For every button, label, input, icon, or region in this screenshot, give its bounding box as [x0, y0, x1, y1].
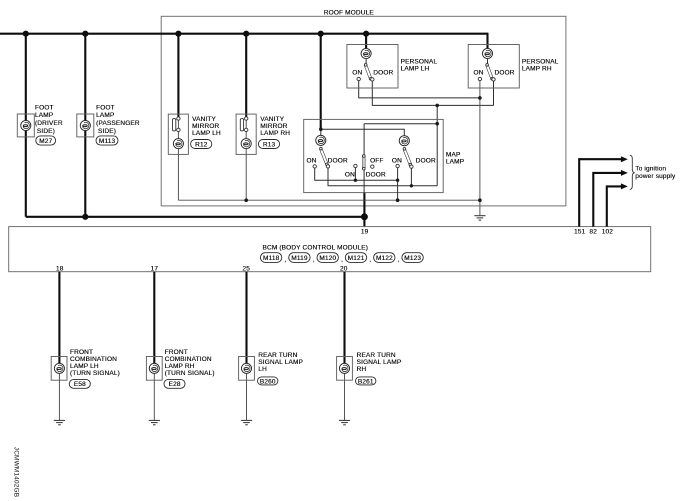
wire: personal RH ON down to roof ground line: [479, 80, 481, 200]
wire: front combination lamp LH to ground: [58, 374, 60, 421]
junction on bus at map lamp: [318, 31, 324, 37]
connector M118: [260, 253, 286, 264]
svg-text:SIDE): SIDE): [37, 128, 55, 135]
personal lamp RH: [468, 45, 558, 89]
wire: foot lamp LH feed: [25, 34, 27, 217]
junction on bus at vanity lamp RH: [243, 31, 249, 37]
junction center ON on ground line: [354, 179, 357, 182]
wire: BCM pin 151 to ignition: [579, 159, 621, 226]
svg-text:ON: ON: [306, 158, 316, 165]
connector M119: [289, 253, 315, 264]
wire: map lamp left bulb stub: [320, 129, 322, 146]
map lamp center switch: [345, 155, 386, 179]
svg-text:M122: M122: [376, 255, 393, 262]
connector R12: [191, 140, 212, 149]
wire: BCM pin 20 to rear turn signal lamp RH: [343, 272, 345, 364]
wire: map switch common to DOOR loop: [364, 124, 437, 193]
wire: BCM pin 18 to front combination lamp LH: [58, 272, 60, 364]
arrowhead pin 82: [621, 170, 628, 176]
front combination lamp RH (turn signal) E28: [146, 349, 214, 380]
svg-text:(TURN SIGNAL): (TURN SIGNAL): [165, 370, 215, 377]
wire: personal lamp RH feed drop: [486, 33, 488, 49]
svg-text:LAMP LH: LAMP LH: [70, 363, 99, 370]
rear turn signal lamp RH B261: [337, 352, 402, 380]
svg-text:20: 20: [340, 265, 348, 272]
connector B260: [258, 377, 278, 385]
svg-text:102: 102: [602, 228, 614, 235]
junction map ground exit on roof ground line: [396, 198, 400, 202]
wire: roof ground drop: [479, 200, 481, 215]
wire: front combination lamp RH to ground: [153, 374, 155, 421]
svg-text:ON: ON: [345, 171, 355, 178]
wire: map lamp feed: [320, 34, 322, 130]
svg-text:OFF: OFF: [370, 158, 383, 165]
arrowhead pin 151: [621, 156, 628, 162]
svg-text:VANITY: VANITY: [192, 116, 216, 123]
svg-text:ON: ON: [352, 70, 362, 77]
wire: personal lamps ON line: [359, 80, 480, 98]
svg-text:DOOR: DOOR: [494, 70, 514, 77]
svg-text:17: 17: [151, 265, 159, 272]
svg-text:E58: E58: [74, 381, 86, 388]
connector M27: [36, 136, 56, 145]
svg-text:SIGNAL LAMP: SIGNAL LAMP: [258, 359, 303, 366]
map lamp box: [304, 119, 464, 192]
wire: BCM pin 82 to ignition: [593, 173, 621, 227]
svg-text:18: 18: [56, 265, 64, 272]
svg-text:DOOR: DOOR: [328, 158, 348, 165]
wire: vanity mirror lamp LH feed: [177, 34, 179, 117]
svg-text:B260: B260: [260, 378, 276, 385]
svg-text:MIRROR: MIRROR: [260, 123, 287, 130]
wire: map center ON contact drop: [354, 167, 356, 180]
svg-text:LAMP RH: LAMP RH: [522, 66, 552, 73]
wire: DOOR signal drop to map lamp: [436, 105, 438, 185]
svg-text:LAMP RH: LAMP RH: [260, 130, 290, 137]
svg-text:,: ,: [341, 257, 343, 264]
svg-text:E28: E28: [168, 381, 180, 388]
vanity mirror lamp RH R13: [236, 114, 290, 154]
svg-text:DOOR: DOOR: [366, 171, 386, 178]
wire: run to BCM pin 19: [26, 216, 365, 218]
svg-text:FRONT: FRONT: [70, 349, 93, 356]
map lamp right bulb: [392, 136, 436, 169]
ground (rear turn signal lamp RH): [339, 420, 350, 424]
svg-text:LH: LH: [258, 366, 267, 373]
wire: map DOOR line: [328, 168, 437, 186]
svg-text:LAMP: LAMP: [35, 112, 53, 119]
junction right ON on ground line: [396, 179, 399, 182]
svg-text:RH: RH: [357, 366, 367, 373]
svg-text:19: 19: [361, 228, 369, 235]
map lamp left bulb: [306, 135, 347, 168]
connector B261: [356, 377, 376, 385]
foot lamp (driver side) M27: [17, 104, 63, 136]
svg-text:M118: M118: [263, 255, 280, 262]
svg-text:B261: B261: [358, 378, 374, 385]
junction ground node: [478, 198, 482, 202]
personal lamp LH: [347, 45, 437, 89]
svg-text:VANITY: VANITY: [260, 116, 284, 123]
wire: rear turn signal lamp LH to ground: [246, 374, 248, 421]
svg-text:M119: M119: [291, 255, 308, 262]
wire: pin 19 drop into BCM: [363, 193, 365, 227]
svg-text:LAMP: LAMP: [96, 112, 114, 119]
wire: map ON (ground) line: [315, 168, 398, 181]
vanity mirror lamp LH R12: [168, 114, 221, 154]
svg-text:SIGNAL LAMP: SIGNAL LAMP: [357, 359, 402, 366]
svg-text:JCMWM1402GB: JCMWM1402GB: [12, 447, 19, 497]
wire: vanity LH internal + down to ground line: [177, 119, 179, 201]
svg-text:LAMP: LAMP: [446, 159, 464, 166]
wire: BCM pin 17 to front combination lamp RH: [153, 272, 155, 364]
svg-text:M120: M120: [319, 255, 336, 262]
connector E58: [69, 379, 90, 388]
svg-text:MAP: MAP: [446, 151, 461, 158]
svg-text:REAR TURN: REAR TURN: [258, 352, 297, 359]
junction DOOR loop top: [435, 122, 439, 126]
svg-text:DOOR: DOOR: [373, 70, 393, 77]
svg-text:R12: R12: [195, 141, 208, 148]
wire: rear turn signal lamp RH to ground: [344, 374, 346, 421]
svg-text:power supply: power supply: [635, 173, 676, 180]
svg-text:REAR TURN: REAR TURN: [357, 352, 396, 359]
junction on bus at foot lamp LH: [23, 31, 29, 37]
junction vanity RH on roof ground line: [244, 198, 248, 202]
svg-text:COMBINATION: COMBINATION: [70, 356, 117, 363]
ground (rear turn signal lamp LH): [241, 420, 252, 424]
wire: map right ON contact drop + exit: [397, 167, 399, 200]
junction on bus at personal lamp LH: [363, 31, 369, 37]
svg-text:25: 25: [242, 265, 250, 272]
junction on bus at foot lamp RH: [82, 31, 88, 37]
BCM (body control module) box: [9, 227, 651, 272]
svg-text:LAMP RH: LAMP RH: [165, 363, 195, 370]
svg-text:FOOT: FOOT: [35, 104, 54, 111]
connector M123: [402, 253, 423, 263]
wire: vanity mirror lamp RH feed: [245, 34, 247, 117]
svg-text:PERSONAL: PERSONAL: [522, 59, 559, 66]
svg-text:ON: ON: [392, 158, 402, 165]
svg-text:R13: R13: [263, 141, 276, 148]
ground (front combination lamp LH): [54, 420, 65, 424]
junction personal DOOR lines: [435, 104, 439, 108]
arrowhead pin 102: [621, 183, 628, 189]
junction foot lamp RH to pin19 run: [82, 214, 88, 220]
svg-text:FRONT: FRONT: [165, 349, 188, 356]
junction right DOOR on door line: [410, 184, 413, 187]
svg-text:LAMP LH: LAMP LH: [192, 130, 221, 137]
svg-text:MIRROR: MIRROR: [192, 123, 219, 130]
junction map power: [319, 127, 323, 131]
wire: BCM pin 102 to ignition: [607, 186, 622, 226]
svg-text:FOOT: FOOT: [96, 104, 115, 111]
svg-text:COMBINATION: COMBINATION: [165, 356, 212, 363]
svg-text:SIDE): SIDE): [98, 128, 116, 135]
svg-text:LAMP LH: LAMP LH: [401, 66, 430, 73]
connector M120: [317, 253, 343, 264]
svg-text:M27: M27: [39, 138, 52, 145]
wire: foot lamp RH feed: [84, 34, 86, 217]
wire: map lamp internal power line: [321, 129, 405, 135]
wire: vanity RH internal + down to ground line: [245, 119, 247, 201]
connector M113: [96, 136, 118, 145]
svg-text:(PASSENGER: (PASSENGER: [96, 120, 140, 127]
connector M122: [374, 253, 400, 264]
svg-text:(TURN SIGNAL): (TURN SIGNAL): [70, 370, 120, 377]
svg-text:,: ,: [284, 257, 286, 264]
junction on bus at vanity lamp LH: [175, 31, 181, 37]
connector R13: [258, 140, 279, 149]
roof module box: [161, 16, 566, 206]
brace to ignition: [630, 155, 635, 189]
svg-text:M121: M121: [348, 255, 365, 262]
svg-text:,: ,: [313, 257, 315, 264]
junction pin19 node: [361, 213, 368, 220]
svg-text:,: ,: [369, 257, 371, 264]
ground (roof module): [474, 216, 485, 220]
svg-text:BCM (BODY CONTROL MODULE): BCM (BODY CONTROL MODULE): [262, 244, 368, 251]
wire: roof ground line: [178, 199, 480, 201]
wire: map right DOOR contact drop: [410, 167, 412, 186]
ground (front combination lamp RH): [149, 420, 160, 424]
svg-text:M113: M113: [99, 138, 116, 145]
svg-text:DOOR: DOOR: [416, 158, 436, 165]
svg-text:PERSONAL: PERSONAL: [401, 59, 438, 66]
front combination lamp LH (turn signal) E58: [51, 349, 120, 380]
wire: personal RH DOOR drop: [493, 81, 495, 106]
svg-text:ON: ON: [473, 70, 483, 77]
svg-text:82: 82: [589, 228, 597, 235]
connector M121: [345, 253, 371, 264]
svg-text:,: ,: [398, 257, 400, 264]
connector E28: [164, 379, 185, 388]
wire: battery power bus: [0, 33, 488, 35]
svg-text:151: 151: [574, 228, 586, 235]
junction personal ON lines: [478, 96, 482, 100]
wire: personal lamp LH feed drop: [365, 34, 367, 49]
svg-text:(DRIVER: (DRIVER: [35, 120, 63, 127]
svg-text:To ignition: To ignition: [635, 165, 666, 172]
wire: BCM pin 25 to rear turn signal lamp LH: [245, 272, 247, 364]
label to ignition power supply: [635, 165, 676, 180]
wire: personal lamps DOOR line: [372, 81, 493, 106]
svg-text:ROOF MODULE: ROOF MODULE: [324, 9, 375, 16]
foot lamp (passenger side) M113: [77, 104, 140, 136]
svg-text:M123: M123: [404, 255, 421, 262]
rear turn signal lamp LH B260: [239, 352, 303, 380]
